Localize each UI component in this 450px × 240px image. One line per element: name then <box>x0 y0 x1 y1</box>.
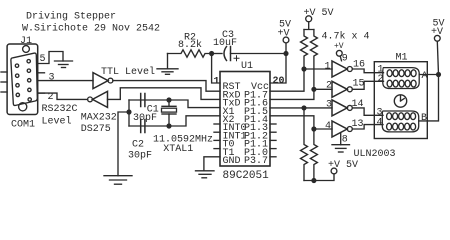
driver U2C inverter <box>332 100 352 116</box>
wire buffer2 output to pin2 <box>38 93 88 99</box>
wire TxD to buffer2 input <box>108 88 221 100</box>
5V +V terminal (top right) <box>431 19 445 42</box>
ground (DB9 pin 5) <box>55 61 73 68</box>
resistor R2 label <box>178 33 202 52</box>
chip U1 right pin labels <box>244 82 269 167</box>
crystal XTAL1 11.0592MHz <box>162 100 177 126</box>
wire P1.5 to driver 3 <box>270 107 332 109</box>
node oscillator ground junction <box>127 110 131 114</box>
svg-text:MAX232: MAX232 <box>81 113 117 124</box>
svg-text:+V: +V <box>334 42 344 51</box>
svg-text:ULN2003: ULN2003 <box>354 149 396 160</box>
node driver2 input junction <box>312 87 316 91</box>
node RST junction <box>210 52 214 56</box>
motor coil B winding <box>382 111 418 132</box>
wire pin5 to ground <box>38 52 63 64</box>
wire +V terminal down to Vcc pin <box>270 43 286 83</box>
svg-text:15: 15 <box>353 79 365 90</box>
driver U2D inverter <box>332 121 352 137</box>
op chip U1 89C2051 body <box>220 72 270 167</box>
svg-text:9: 9 <box>342 54 348 65</box>
wire oscillator left rail <box>128 100 130 126</box>
+V 5V terminal (pullups top) <box>304 8 334 22</box>
motor coil A winding <box>383 68 419 89</box>
svg-text:2: 2 <box>326 81 332 92</box>
svg-text:B: B <box>421 113 427 124</box>
chip U1 left pin labels <box>223 82 247 167</box>
J1 left side pin stubs <box>1 72 7 92</box>
wire driver1 output to motor pin1 <box>352 69 383 73</box>
ULN2003 pin 9 supply terminal <box>336 50 342 60</box>
wire driver3 output to motor pin3 <box>352 108 383 115</box>
svg-text:4: 4 <box>377 117 383 128</box>
ground (oscillator) <box>104 176 132 185</box>
ULN2003 pin 8 ground stem <box>340 133 342 145</box>
buffer U3B (TTL to RS232) <box>88 91 108 107</box>
ground (R2) <box>157 69 178 75</box>
motor M1 box <box>374 62 427 139</box>
+V 5V terminal (left of chip top) <box>278 20 292 43</box>
wire driver2 output to motor pin2 <box>352 81 383 89</box>
svg-text:RS232C: RS232C <box>42 104 78 115</box>
svg-text:W.Sirichote 29 Nov 2542: W.Sirichote 29 Nov 2542 <box>22 23 160 35</box>
svg-text:+V 5V: +V 5V <box>304 8 334 19</box>
capacitor C1 label <box>133 104 159 124</box>
J1 pin3 stub <box>38 72 45 74</box>
wire coil B center tap to +V rail <box>419 75 439 121</box>
ground (ULN2003 pin 8) <box>332 145 350 152</box>
svg-text:Driving Stepper: Driving Stepper <box>26 11 116 23</box>
wire RST junction down to chip pin1 <box>212 54 220 84</box>
wire P1.4 to driver 4 <box>270 116 332 129</box>
svg-text:+V: +V <box>431 27 443 38</box>
wire P1.6 to driver 2 <box>270 89 332 99</box>
chip U1 unused pin stubs right <box>270 124 276 157</box>
wire P1.7 to driver 1 <box>270 69 332 91</box>
driver U2A inverter <box>332 61 352 77</box>
node driver1 input junction <box>302 67 306 71</box>
chip U1 unused pin stubs left <box>214 124 220 149</box>
node driver4 input junction <box>312 127 316 131</box>
svg-text:C2: C2 <box>132 140 144 151</box>
driver U2B inverter <box>332 81 352 97</box>
svg-text:A: A <box>422 71 428 82</box>
J1 pin2 stub <box>38 92 45 94</box>
svg-text:3: 3 <box>49 73 55 84</box>
J1 pin dots column right (pins 1-5) <box>27 60 31 102</box>
svg-text:U1: U1 <box>241 61 253 72</box>
wire rail to ground <box>118 112 129 176</box>
wire R2 left lead down <box>167 54 169 69</box>
wire top right +V to rail <box>437 41 438 74</box>
svg-text:4.7k x 4: 4.7k x 4 <box>322 31 370 43</box>
ground (U1 GND) <box>196 171 215 178</box>
svg-text:3: 3 <box>326 100 332 111</box>
resistor R5 4.7k (pullup 3) <box>301 108 308 181</box>
node bottom rail junction <box>312 179 316 183</box>
buffer U3A (RS232 to TTL) <box>93 73 113 89</box>
RS232C Level label <box>42 104 78 128</box>
svg-text:XTAL1: XTAL1 <box>163 144 193 155</box>
svg-text:8.2k: 8.2k <box>178 39 202 51</box>
svg-text:1: 1 <box>214 77 220 88</box>
node driver3 input junction <box>302 106 306 110</box>
connector J1 DB9 body <box>7 44 38 115</box>
wire buffer1 output to RxD <box>113 81 220 92</box>
resistor R4 4.7k (pullup 2) <box>310 30 317 90</box>
svg-text:Level: Level <box>42 116 72 128</box>
node X2 crystal junction <box>167 124 171 128</box>
svg-text:89C2051: 89C2051 <box>223 170 270 182</box>
wire X2 to oscillator bottom rail <box>129 116 220 126</box>
svg-text:20: 20 <box>273 76 285 87</box>
svg-text:30pF: 30pF <box>128 151 152 162</box>
svg-text:1: 1 <box>325 61 331 72</box>
svg-text:COM1: COM1 <box>11 119 35 130</box>
svg-text:TTL Level: TTL Level <box>101 66 155 78</box>
svg-text:DS275: DS275 <box>81 124 111 135</box>
wire driver4 output to motor pin4 <box>352 125 383 129</box>
MAX232 DS275 label <box>81 113 117 135</box>
capacitor C3 10uF <box>212 47 286 61</box>
motor symbol circle <box>394 95 406 107</box>
capacitor C2 30pF <box>141 120 145 133</box>
crystal label <box>153 135 213 156</box>
J1 pin dots column left (pins 6-9) <box>15 64 19 97</box>
wire coil A center tap to +V rail <box>419 74 438 76</box>
resistor R6 4.7k (pullup 4) <box>310 129 317 181</box>
svg-text:P3.7: P3.7 <box>244 156 268 167</box>
wire bottom rail to +V <box>304 174 334 181</box>
wire GND pin to ground <box>204 157 220 171</box>
node X1 crystal junction <box>167 98 171 102</box>
svg-text:10uF: 10uF <box>213 38 237 49</box>
svg-text:GND: GND <box>223 156 241 167</box>
capacitor C3 label <box>213 30 237 49</box>
resistor R2 8.2k <box>168 50 212 57</box>
node A rail junction <box>437 73 441 77</box>
node Vcc junction <box>284 52 288 56</box>
capacitor C1 30pF <box>141 94 145 107</box>
capacitor C2 label <box>128 140 152 162</box>
svg-text:4: 4 <box>325 121 331 132</box>
wire X1 to oscillator top rail <box>129 100 220 108</box>
wire +V to pullup pair <box>304 22 314 30</box>
+V 5V terminal (bottom) <box>328 160 358 174</box>
resistor R3 4.7k (pullup 1) <box>301 30 308 70</box>
wire pin3 to TTL buffer input <box>38 80 93 82</box>
